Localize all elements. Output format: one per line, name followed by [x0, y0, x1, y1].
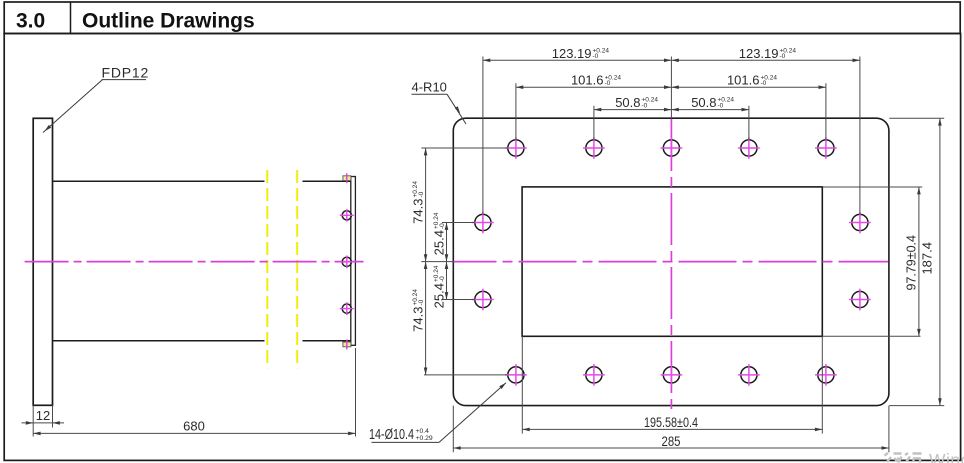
left extension lines: [421, 147, 508, 149]
hole 748.9,374.9: [741, 367, 757, 383]
leader 14-Ø10.4: [439, 383, 506, 443]
svg-text:-0: -0: [439, 223, 446, 229]
svg-text:187.4: 187.4: [920, 242, 935, 275]
svg-text:-0: -0: [418, 191, 425, 197]
header row: [4, 2, 960, 34]
svg-text:3.0: 3.0: [16, 10, 45, 33]
hole 482.9,222.5: [475, 214, 491, 230]
hole 859.9,299.5: [852, 291, 868, 307]
side view: flange plate: [33, 118, 52, 405]
break lines (yellow dashed): [266, 170, 268, 368]
svg-text:97.79±0.4: 97.79±0.4: [905, 235, 919, 291]
side view: body bottom line: [53, 340, 265, 342]
hole 593.9,148.0: [586, 140, 602, 156]
svg-text:74.3: 74.3: [411, 307, 426, 332]
header divider: [70, 2, 72, 34]
hole 825.9,148.0: [818, 140, 834, 156]
svg-text:123.19: 123.19: [552, 46, 592, 61]
hole 482.9,299.5: [475, 291, 491, 307]
dimension 25.4 upper/lower: [446, 223, 448, 300]
svg-text:101.6: 101.6: [571, 73, 604, 88]
hole 859.9,222.5: [852, 214, 868, 230]
vertical center line (magenta): [670, 119, 672, 410]
svg-text:50.8: 50.8: [615, 95, 640, 110]
side view center line (magenta): [25, 261, 364, 263]
hole 748.9,148.0: [741, 140, 757, 156]
svg-text:25.4: 25.4: [432, 283, 447, 308]
side view: body top line: [53, 180, 265, 182]
hole 515.9,148.0: [508, 140, 524, 156]
svg-text:4-R10: 4-R10: [412, 80, 447, 95]
hole 671.4,148.0: [663, 140, 679, 156]
front view: flange outline: [453, 118, 889, 405]
hole 825.9,374.9: [818, 367, 834, 383]
svg-text:680: 680: [183, 419, 205, 434]
dimension 74.3 upper/lower: [425, 148, 427, 375]
svg-text:-0: -0: [761, 80, 767, 87]
leader 4-R10: [447, 94, 466, 124]
top extension lines: [482, 57, 484, 215]
dimension 680 total length: [355, 348, 357, 437]
svg-text:-0: -0: [718, 103, 724, 110]
svg-text:-0: -0: [418, 299, 425, 305]
leader FDP12: [43, 80, 103, 133]
svg-text:285: 285: [662, 433, 681, 449]
horizontal center line (magenta): [454, 261, 889, 263]
dimension 285: [453, 447, 889, 449]
svg-text:-0: -0: [642, 103, 648, 110]
watermark 激活 Windows (clipped at page bottom): [885, 453, 922, 463]
svg-text:+0.29: +0.29: [416, 435, 433, 442]
bottom extension lines: [521, 336, 523, 433]
svg-text:-0: -0: [605, 80, 611, 87]
dimension 97.79±0.4: [918, 187, 920, 336]
dimension 12 flange thickness: [32, 405, 34, 436]
side view plate corner marks: [343, 176, 351, 181]
svg-text:-0: -0: [780, 53, 786, 60]
dimension 123.19 left/right: [483, 59, 860, 61]
hole 671.4,374.9: [663, 367, 679, 383]
side view: end flange plate: [351, 177, 356, 346]
svg-text:50.8: 50.8: [691, 95, 716, 110]
dimension 187.4: [939, 118, 941, 405]
side view flange holes: [342, 211, 351, 220]
svg-text:101.6: 101.6: [727, 73, 760, 88]
dimension 195.58±0.4: [522, 428, 822, 430]
svg-text:-0: -0: [439, 276, 446, 282]
right extension lines: [822, 186, 922, 188]
hole 515.9,374.9: [508, 367, 524, 383]
svg-text:Windows: Windows: [929, 450, 964, 463]
svg-text:14-Ø10.4: 14-Ø10.4: [369, 427, 414, 443]
svg-text:123.19: 123.19: [739, 46, 779, 61]
svg-text:Outline Drawings: Outline Drawings: [82, 10, 255, 33]
svg-text:195.58±0.4: 195.58±0.4: [644, 414, 698, 430]
svg-text:FDP12: FDP12: [102, 65, 150, 81]
svg-text:74.3: 74.3: [411, 199, 426, 224]
svg-text:-0: -0: [593, 53, 599, 60]
dimension 50.8 left/right: [594, 109, 749, 111]
svg-text:25.4: 25.4: [432, 230, 447, 255]
front view: aperture rectangle: [522, 187, 822, 336]
dimension 101.6 left/right: [516, 86, 826, 88]
svg-text:+0.4: +0.4: [416, 428, 430, 435]
svg-text:12: 12: [36, 408, 50, 423]
hole 593.9,374.9: [586, 367, 602, 383]
